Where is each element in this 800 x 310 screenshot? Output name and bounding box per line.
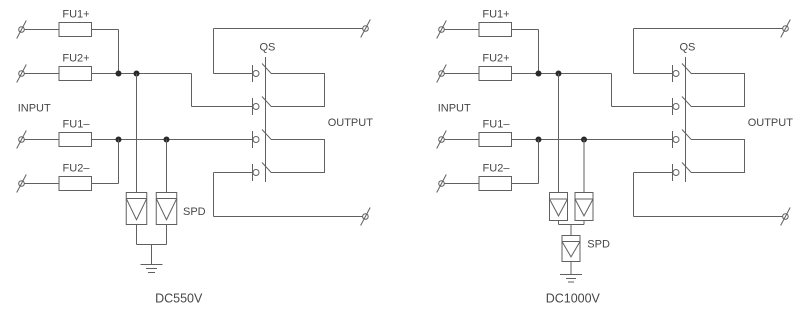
wire negative bus down to SPD2 xyxy=(166,140,168,193)
wire common bar to SPD3 xyxy=(570,225,572,236)
svg-text:OUTPUT: OUTPUT xyxy=(328,117,374,129)
junction dot positive bus A xyxy=(116,71,122,77)
wire FU2- to corner xyxy=(512,183,539,185)
output terminal top xyxy=(361,20,371,38)
svg-text:FU1+: FU1+ xyxy=(482,9,509,21)
SPD varistor 2 xyxy=(575,193,593,221)
fuse FU1- body xyxy=(59,133,92,147)
output terminal bottom xyxy=(781,208,791,226)
bracket joining pole1-pole2 outputs xyxy=(272,74,325,107)
QS pole 2 contact tick xyxy=(252,98,254,115)
QS pole 3 hinge circle xyxy=(253,137,259,143)
wire positive bus drop to pole 2 xyxy=(611,74,613,107)
junction dot negative bus A xyxy=(536,137,542,143)
junction dot negative bus A xyxy=(116,137,122,143)
wire vertical up from pole1 feed xyxy=(213,29,215,74)
QS pole 1 blade xyxy=(262,64,272,74)
svg-text:QS: QS xyxy=(680,42,696,54)
wire corner down to positive bus xyxy=(118,30,120,74)
QS pole 1 blade xyxy=(682,64,692,74)
wire SPD2 bottom drop xyxy=(166,225,168,245)
wire SPD3 to ground xyxy=(570,262,572,275)
wire corner up to negative bus xyxy=(118,140,120,184)
wire terminal2 to FU2+ xyxy=(24,73,59,75)
QS pole 4 contact tick xyxy=(672,164,674,181)
wire top run to output terminal xyxy=(634,28,783,30)
svg-text:OUTPUT: OUTPUT xyxy=(748,117,794,129)
QS pole 4 hinge circle xyxy=(673,170,679,176)
wire terminal3 to FU1- xyxy=(24,139,59,141)
wire positive bus down to SPD1 xyxy=(558,74,560,193)
SPD varistor 3 (series) xyxy=(562,236,580,262)
wire corner down to positive bus xyxy=(538,30,540,74)
svg-text:DC550V: DC550V xyxy=(155,291,203,305)
wire SPD common bar xyxy=(559,224,585,226)
svg-text:QS: QS xyxy=(260,42,276,54)
QS pole 4 hinge circle xyxy=(253,170,259,176)
input terminal row3 xyxy=(17,131,27,149)
svg-text:FU2+: FU2+ xyxy=(482,53,509,65)
SPD varistor 1 xyxy=(550,193,568,221)
wire FU1+ to corner xyxy=(92,29,119,31)
svg-text:FU1+: FU1+ xyxy=(62,9,89,21)
svg-text:FU1–: FU1– xyxy=(483,119,511,131)
svg-text:SPD: SPD xyxy=(587,239,610,251)
input terminal row4 xyxy=(17,175,27,193)
wire terminal4 to FU2- xyxy=(444,183,479,185)
QS linkage bar xyxy=(685,57,687,182)
bracket joining pole3-pole4 outputs xyxy=(692,140,745,173)
wire positive bus down to SPD1 xyxy=(136,74,138,193)
SPD varistor 1 xyxy=(126,193,147,225)
QS pole 2 contact tick xyxy=(672,98,674,115)
bracket joining pole3-pole4 outputs xyxy=(272,140,325,173)
junction dot positive bus B xyxy=(556,71,562,77)
QS pole 3 contact tick xyxy=(672,131,674,148)
wire into QS pole 2 xyxy=(192,106,254,108)
wire bottom run to output terminal xyxy=(214,216,363,218)
QS pole 2 blade xyxy=(262,97,272,107)
svg-text:INPUT: INPUT xyxy=(18,103,51,115)
wire QS pole1 feed from top xyxy=(214,73,254,75)
QS pole 3 blade xyxy=(262,130,272,140)
ground xyxy=(560,275,582,283)
svg-text:DC1000V: DC1000V xyxy=(546,291,601,305)
wire QS pole4 feed xyxy=(214,172,254,174)
junction dot negative bus B xyxy=(164,137,170,143)
input terminal row3 xyxy=(437,131,447,149)
wire QS pole4 feed xyxy=(634,172,674,174)
wire vertical down from pole4 feed xyxy=(213,173,215,217)
wire SPD common bar xyxy=(137,244,167,246)
bracket joining pole1-pole2 outputs xyxy=(692,74,745,107)
wire SPD2 bottom stub xyxy=(583,221,585,225)
ground xyxy=(141,265,163,273)
wire negative bus into QS pole 3 xyxy=(512,139,674,141)
input terminal row1 xyxy=(17,21,27,39)
input terminal row2 xyxy=(437,65,447,83)
wire positive bus xyxy=(512,73,612,75)
QS pole 3 hinge circle xyxy=(673,137,679,143)
fuse FU2- body xyxy=(59,177,92,191)
svg-text:INPUT: INPUT xyxy=(438,103,471,115)
QS pole 3 contact tick xyxy=(252,131,254,148)
wire terminal1 to FU1+ xyxy=(24,29,59,31)
QS pole 1 hinge circle xyxy=(253,71,259,77)
wire to ground xyxy=(151,245,153,265)
QS pole 1 contact tick xyxy=(252,65,254,82)
svg-text:SPD: SPD xyxy=(183,206,206,218)
svg-text:FU2+: FU2+ xyxy=(62,53,89,65)
wire terminal2 to FU2+ xyxy=(444,73,479,75)
fuse FU1+ body xyxy=(479,23,512,37)
wire positive bus xyxy=(92,73,192,75)
QS pole 4 contact tick xyxy=(252,164,254,181)
wire top run to output terminal xyxy=(214,28,363,30)
wire negative bus down to SPD2 xyxy=(583,140,585,193)
fuse FU2+ body xyxy=(479,67,512,81)
QS pole 2 hinge circle xyxy=(673,104,679,110)
wire into QS pole 2 xyxy=(612,106,674,108)
fuse FU1+ body xyxy=(59,23,92,37)
input terminal row1 xyxy=(437,21,447,39)
fuse FU1- body xyxy=(479,133,512,147)
QS pole 4 blade xyxy=(682,163,692,173)
input terminal row4 xyxy=(437,175,447,193)
wire vertical up from pole1 feed xyxy=(633,29,635,74)
QS linkage bar xyxy=(265,57,267,182)
fuse FU2+ body xyxy=(59,67,92,81)
wire positive bus drop to pole 2 xyxy=(191,74,193,107)
QS pole 2 hinge circle xyxy=(253,104,259,110)
input terminal row2 xyxy=(17,65,27,83)
wire FU1+ to corner xyxy=(512,29,539,31)
wire vertical down from pole4 feed xyxy=(633,173,635,217)
QS pole 4 blade xyxy=(262,163,272,173)
junction dot negative bus B xyxy=(581,137,587,143)
wire SPD1 bottom drop xyxy=(136,225,138,245)
wire terminal3 to FU1- xyxy=(444,139,479,141)
wire negative bus into QS pole 3 xyxy=(92,139,254,141)
QS pole 2 blade xyxy=(682,97,692,107)
svg-text:FU1–: FU1– xyxy=(63,119,91,131)
QS pole 3 blade xyxy=(682,130,692,140)
junction dot positive bus B xyxy=(134,71,140,77)
wire SPD1 bottom stub xyxy=(558,221,560,225)
output terminal top xyxy=(781,20,791,38)
fuse FU2- body xyxy=(479,177,512,191)
QS pole 1 hinge circle xyxy=(673,71,679,77)
wire QS pole1 feed from top xyxy=(634,73,674,75)
svg-text:FU2–: FU2– xyxy=(483,163,511,175)
output terminal bottom xyxy=(361,208,371,226)
wire corner up to negative bus xyxy=(538,140,540,184)
svg-text:FU2–: FU2– xyxy=(63,163,91,175)
QS pole 1 contact tick xyxy=(672,65,674,82)
wire terminal1 to FU1+ xyxy=(444,29,479,31)
SPD varistor 2 xyxy=(156,193,177,225)
wire FU2- to corner xyxy=(92,183,119,185)
wire terminal4 to FU2- xyxy=(24,183,59,185)
wire bottom run to output terminal xyxy=(634,216,783,218)
junction dot positive bus A xyxy=(536,71,542,77)
